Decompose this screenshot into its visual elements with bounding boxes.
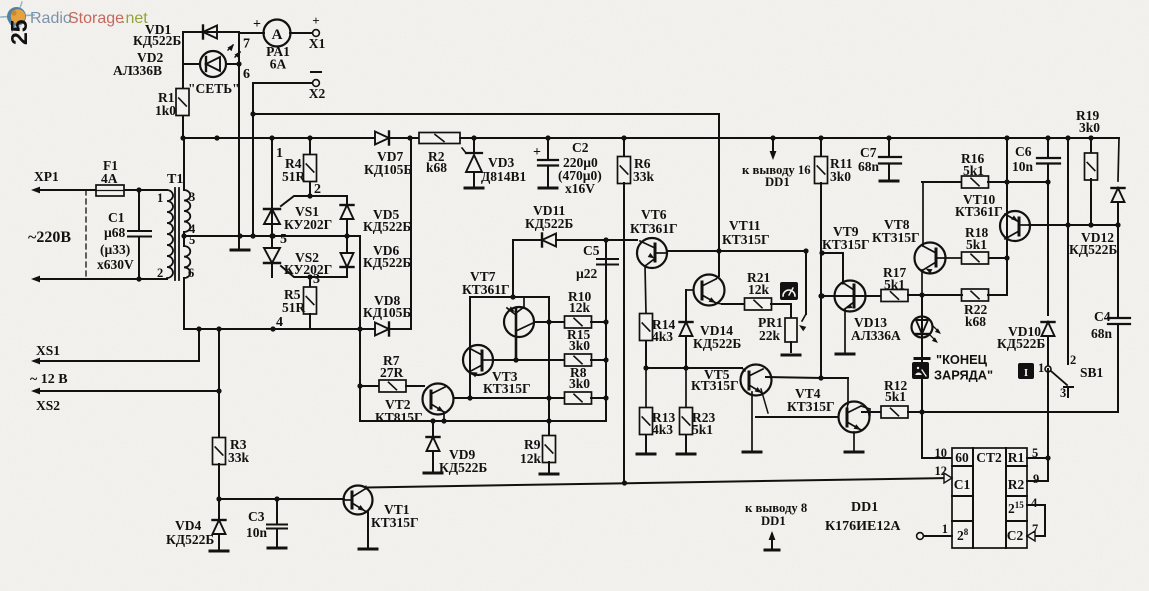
svg-text:25: 25 <box>6 19 32 45</box>
svg-text:6: 6 <box>243 67 250 82</box>
svg-text:КД522Б: КД522Б <box>997 336 1045 351</box>
svg-text:3k0: 3k0 <box>830 169 851 184</box>
svg-text:R2: R2 <box>1008 477 1025 492</box>
svg-text:КД522Б: КД522Б <box>363 219 411 234</box>
svg-text:VT11: VT11 <box>729 218 761 233</box>
svg-text:КД522Б: КД522Б <box>525 216 573 231</box>
svg-text:КУ202Г: КУ202Г <box>284 217 332 232</box>
svg-text:1k0: 1k0 <box>155 103 176 118</box>
svg-text:C3: C3 <box>248 509 265 524</box>
svg-text:3: 3 <box>189 190 195 204</box>
svg-text:Radio: Radio <box>30 10 72 27</box>
svg-text:µ22: µ22 <box>576 266 598 281</box>
svg-text:+: + <box>533 145 541 160</box>
svg-text:C1: C1 <box>954 477 971 492</box>
svg-text:1: 1 <box>1038 361 1044 375</box>
svg-text:КД105Б: КД105Б <box>364 162 412 177</box>
svg-text:(µ33): (µ33) <box>100 242 130 257</box>
svg-text:4A: 4A <box>101 171 118 186</box>
svg-text:~220В: ~220В <box>28 229 71 246</box>
svg-text:КТ361Г: КТ361Г <box>955 204 1003 219</box>
svg-text:10n: 10n <box>246 525 268 540</box>
svg-text:C2: C2 <box>572 140 589 155</box>
svg-text:68n: 68n <box>1091 326 1113 341</box>
svg-text:КТ361Г: КТ361Г <box>630 221 678 236</box>
svg-text:VD3: VD3 <box>488 155 514 170</box>
svg-text:5k1: 5k1 <box>966 237 987 252</box>
svg-text:51R: 51R <box>282 300 306 315</box>
svg-text:68n: 68n <box>858 159 880 174</box>
svg-text:К176ИЕ12А: К176ИЕ12А <box>825 519 901 534</box>
svg-text:k68: k68 <box>965 314 986 329</box>
svg-text:12k: 12k <box>569 300 591 315</box>
svg-text:4: 4 <box>1031 496 1038 510</box>
svg-text:Д814В1: Д814В1 <box>481 169 527 184</box>
svg-text:КД522Б: КД522Б <box>693 336 741 351</box>
svg-text:3k0: 3k0 <box>569 338 590 353</box>
svg-text:7: 7 <box>1032 522 1038 536</box>
svg-text:C1: C1 <box>108 210 125 225</box>
svg-text:Storage: Storage <box>68 10 124 27</box>
svg-text:КТ315Г: КТ315Г <box>691 378 739 393</box>
svg-text:6: 6 <box>188 266 194 280</box>
svg-text:1: 1 <box>157 191 163 205</box>
svg-text:КТ315Г: КТ315Г <box>722 232 770 247</box>
svg-text:3k0: 3k0 <box>1079 120 1100 135</box>
svg-text:VT6: VT6 <box>641 207 667 222</box>
svg-text:5k1: 5k1 <box>963 163 984 178</box>
svg-text:АЛ336В: АЛ336В <box>113 63 162 78</box>
svg-text:X2: X2 <box>309 86 326 101</box>
svg-text:АЛ336А: АЛ336А <box>851 328 901 343</box>
svg-text:C7: C7 <box>860 145 877 160</box>
svg-text:C4: C4 <box>1094 309 1111 324</box>
svg-text:XP1: XP1 <box>34 169 59 184</box>
svg-text:КТ315Г: КТ315Г <box>787 399 835 414</box>
svg-text:VD4: VD4 <box>175 518 201 533</box>
svg-text:КД522Б: КД522Б <box>133 33 181 48</box>
svg-text:X1: X1 <box>309 36 326 51</box>
svg-text:I: I <box>1024 367 1028 379</box>
svg-text:51R: 51R <box>282 169 306 184</box>
svg-text:ЗАРЯДА": ЗАРЯДА" <box>934 368 993 383</box>
svg-text:Т1: Т1 <box>167 172 183 187</box>
svg-text:33k: 33k <box>228 450 250 465</box>
svg-text:1: 1 <box>942 522 948 536</box>
svg-text:60: 60 <box>955 450 969 465</box>
svg-text:DD1: DD1 <box>765 175 790 189</box>
svg-text:10: 10 <box>935 446 948 460</box>
svg-text:+: + <box>312 13 319 28</box>
svg-text:"СЕТЬ": "СЕТЬ" <box>188 81 240 96</box>
svg-text:4: 4 <box>276 315 283 330</box>
svg-text:КД105Б: КД105Б <box>363 305 411 320</box>
svg-text:+: + <box>253 17 261 32</box>
svg-text:3: 3 <box>313 272 320 287</box>
svg-text:27R: 27R <box>380 365 404 380</box>
svg-text:10n: 10n <box>1012 159 1034 174</box>
svg-text:k68: k68 <box>426 160 447 175</box>
svg-text:33k: 33k <box>633 169 655 184</box>
svg-text:CT2: CT2 <box>976 450 1002 465</box>
svg-text:R9: R9 <box>524 437 541 452</box>
svg-text:3: 3 <box>1060 386 1066 400</box>
svg-text:5: 5 <box>280 232 287 247</box>
svg-text:5k1: 5k1 <box>885 389 906 404</box>
svg-text:7: 7 <box>243 37 250 52</box>
svg-text:КТ361Г: КТ361Г <box>462 282 510 297</box>
svg-text:C5: C5 <box>583 243 600 258</box>
svg-text:2: 2 <box>157 266 163 280</box>
svg-text:к выводу 8: к выводу 8 <box>745 501 807 515</box>
svg-text:КТ315Г: КТ315Г <box>822 237 870 252</box>
svg-text:КТ315Г: КТ315Г <box>371 515 419 530</box>
svg-text:12k: 12k <box>748 282 770 297</box>
svg-text:5: 5 <box>1032 446 1038 460</box>
svg-text:DD1: DD1 <box>851 500 878 515</box>
svg-text:3k0: 3k0 <box>569 376 590 391</box>
svg-text:5k1: 5k1 <box>884 277 905 292</box>
svg-text:C2: C2 <box>1007 528 1024 543</box>
svg-text:КД522Б: КД522Б <box>1069 242 1117 257</box>
svg-text:2: 2 <box>314 182 321 197</box>
svg-text:~ 12 В: ~ 12 В <box>30 372 68 387</box>
svg-text:1: 1 <box>276 146 283 161</box>
svg-text:x16V: x16V <box>565 181 595 196</box>
svg-text:4k3: 4k3 <box>652 422 673 437</box>
svg-text:9: 9 <box>1033 472 1039 486</box>
svg-text:12k: 12k <box>520 451 542 466</box>
svg-text:22k: 22k <box>759 328 781 343</box>
svg-text:R1: R1 <box>1008 450 1025 465</box>
svg-text:XS1: XS1 <box>36 343 60 358</box>
svg-text:КТ315Г: КТ315Г <box>483 381 531 396</box>
svg-text:A: A <box>272 27 283 43</box>
svg-text:4k3: 4k3 <box>652 329 673 344</box>
svg-text:"КОНЕЦ: "КОНЕЦ <box>936 352 988 367</box>
svg-text:6A: 6A <box>270 57 287 72</box>
svg-text:КД522Б: КД522Б <box>363 255 411 270</box>
svg-text:КД522Б: КД522Б <box>166 532 214 547</box>
svg-text:КТ315Г: КТ315Г <box>872 230 920 245</box>
svg-text:C6: C6 <box>1015 144 1032 159</box>
svg-text:SB1: SB1 <box>1080 365 1104 380</box>
svg-text:µ68: µ68 <box>104 225 126 240</box>
svg-text:XS2: XS2 <box>36 398 60 413</box>
svg-text:x630V: x630V <box>97 257 134 272</box>
svg-text:DD1: DD1 <box>761 514 786 528</box>
svg-text:5k1: 5k1 <box>692 422 713 437</box>
svg-text:КТ815Г: КТ815Г <box>375 410 423 425</box>
svg-text:КД522Б: КД522Б <box>439 460 487 475</box>
svg-text:2: 2 <box>1070 353 1076 367</box>
svg-text:КУ202Г: КУ202Г <box>284 262 332 277</box>
